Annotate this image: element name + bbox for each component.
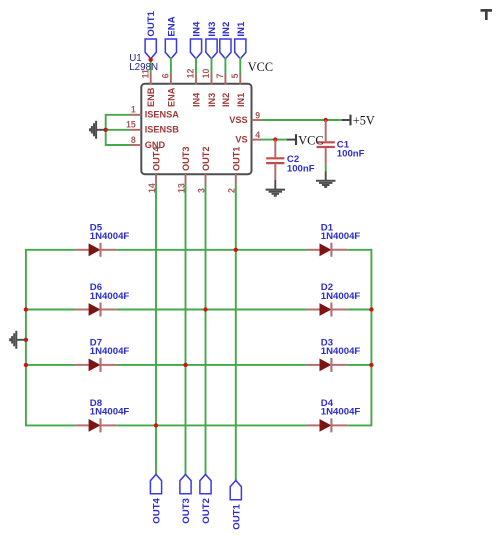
- U1 pin 2 (OUT1) bottom: [227, 146, 242, 193]
- svg-text:1N4004F: 1N4004F: [321, 346, 361, 357]
- svg-text:ENB: ENB: [146, 87, 156, 107]
- svg-text:IN3: IN3: [207, 22, 218, 37]
- wire IN3 connector to U1: [211, 58, 213, 75]
- wire VS to VCC: [262, 139, 287, 141]
- junction row2/OUT2: [203, 307, 207, 311]
- junction left bus row3: [24, 363, 28, 367]
- diode D6: [76, 303, 117, 317]
- diode D7: [76, 358, 117, 372]
- U1 pin 4 (VS) right: [235, 130, 262, 145]
- diode D5: [76, 243, 117, 257]
- wire U1 pin8 to bus: [106, 144, 130, 146]
- svg-text:IN2: IN2: [221, 22, 232, 37]
- D6 value 1N4004F: [90, 291, 130, 302]
- ground below C1: [316, 171, 336, 187]
- U1 pin 14 (OUT4) bottom: [147, 146, 162, 193]
- svg-text:12: 12: [186, 69, 196, 79]
- junction at OUT1 connector / pin ENB: [149, 58, 153, 62]
- wire diode row 2: [26, 309, 372, 311]
- svg-text:100nF: 100nF: [287, 163, 315, 174]
- U1 pin 6 (ENA) top: [161, 73, 177, 107]
- junction right bus row2: [369, 307, 373, 311]
- D4 name: [321, 398, 334, 409]
- svg-text:ISENSA: ISENSA: [145, 110, 180, 120]
- U1 pin 11 (ENB) top: [140, 69, 156, 107]
- wire IN1 connector to U1: [239, 58, 241, 75]
- svg-text:OUT2: OUT2: [201, 498, 212, 524]
- ground GND at U1 sense: [90, 121, 106, 139]
- svg-text:8: 8: [131, 135, 136, 145]
- svg-text:OUT1: OUT1: [231, 146, 241, 171]
- capacitor C1: [317, 120, 335, 165]
- diode D2: [307, 303, 348, 317]
- C1 value 100nF: [337, 148, 365, 159]
- junction C2 top: [273, 137, 277, 141]
- wire U1 OUT3 to connector: [185, 185, 187, 475]
- wire left bracket vertical: [105, 114, 107, 146]
- svg-text:1: 1: [131, 105, 136, 115]
- junction right bus row3: [369, 363, 373, 367]
- svg-text:VSS: VSS: [229, 115, 247, 125]
- U1 pin 10 (IN3) top: [201, 69, 217, 107]
- junction left bracket: [104, 128, 108, 132]
- connector pad OUT1 (bottom): [230, 480, 242, 529]
- supply +5V symbol: [342, 113, 375, 127]
- wire U1 OUT4 to connector: [155, 185, 157, 475]
- wire U1 pin15 to bus: [106, 129, 130, 131]
- connector pad IN4 (top): [190, 21, 202, 59]
- supply VCC symbol: [287, 133, 324, 147]
- diode D3: [307, 358, 348, 372]
- D1 name: [321, 223, 334, 234]
- D2 value 1N4004F: [321, 291, 361, 302]
- svg-text:1N4004F: 1N4004F: [90, 231, 130, 242]
- ground at diode bus: [10, 331, 26, 349]
- svg-text:7: 7: [215, 73, 225, 78]
- svg-text:6: 6: [161, 73, 171, 78]
- wire diode row 3: [26, 364, 372, 366]
- U1 pin 7 (IN2) top: [215, 73, 231, 107]
- U1 pin 1 (ISENSA) left: [130, 105, 179, 120]
- svg-text:1N4004F: 1N4004F: [90, 407, 130, 418]
- connector pad IN2 (top): [220, 22, 232, 59]
- svg-text:OUT4: OUT4: [152, 497, 163, 523]
- wire U1 OUT2 to connector: [205, 185, 207, 475]
- svg-text:1N4004F: 1N4004F: [90, 291, 130, 302]
- svg-text:VS: VS: [235, 135, 247, 145]
- connector pad IN3 (top): [206, 22, 218, 59]
- svg-text:1N4004F: 1N4004F: [321, 291, 361, 302]
- svg-text:5: 5: [230, 73, 240, 78]
- U1 pin 9 (VSS) right: [229, 110, 262, 125]
- wire OUT1 connector to U1: [150, 58, 152, 75]
- svg-text:1N4004F: 1N4004F: [90, 346, 130, 357]
- D6 name: [90, 282, 102, 293]
- junction row3/OUT3: [183, 363, 187, 367]
- wire U1 OUT1 to connector: [235, 185, 237, 481]
- svg-text:OUT1: OUT1: [146, 10, 157, 36]
- svg-text:IN1: IN1: [236, 21, 247, 37]
- U1 value L298N: [129, 62, 158, 73]
- U1 pin 3 (OUT2) bottom: [196, 146, 211, 193]
- D7 name: [90, 338, 102, 349]
- D8 name: [90, 398, 103, 409]
- junction C1 top: [324, 118, 328, 122]
- connector pad OUT3 (bottom): [180, 474, 192, 523]
- D3 name: [321, 338, 333, 349]
- U1 pin 5 (IN1) top: [230, 73, 246, 107]
- wire IN4 connector to U1: [195, 58, 197, 75]
- wire left bus: [25, 249, 27, 427]
- ground below C2: [266, 180, 286, 196]
- svg-text:10: 10: [201, 69, 211, 79]
- svg-text:IN4: IN4: [192, 92, 202, 107]
- C2 name: [287, 154, 299, 165]
- diode D1: [307, 243, 348, 257]
- junction row1/OUT1: [234, 248, 238, 252]
- junction row4/OUT4: [154, 423, 158, 427]
- D4 value 1N4004F: [321, 407, 361, 418]
- svg-text:ISENSB: ISENSB: [145, 125, 180, 135]
- svg-text:15: 15: [126, 120, 136, 130]
- junction left bus row2: [24, 307, 28, 311]
- svg-text:VCC: VCC: [298, 133, 323, 147]
- wire U1 pin1 to bus: [106, 114, 130, 116]
- sheet title T: [481, 9, 493, 20]
- D5 name: [90, 223, 103, 234]
- capacitor C2: [266, 140, 284, 180]
- connector pad IN1 (top): [235, 21, 247, 59]
- D3 value 1N4004F: [321, 346, 361, 357]
- svg-text:+5V: +5V: [353, 113, 375, 127]
- svg-text:IN3: IN3: [207, 93, 217, 107]
- svg-text:ENA: ENA: [166, 16, 177, 36]
- connector pad OUT1 (top): [145, 10, 157, 58]
- C2 value 100nF: [287, 163, 315, 174]
- diode D8: [76, 418, 117, 432]
- svg-text:OUT4: OUT4: [152, 146, 162, 171]
- svg-text:OUT1: OUT1: [231, 503, 242, 529]
- wire right bus: [370, 249, 372, 427]
- D7 value 1N4004F: [90, 346, 130, 357]
- svg-text:IN2: IN2: [221, 93, 231, 107]
- svg-text:IN4: IN4: [192, 21, 203, 37]
- wire IN2 connector to U1: [224, 58, 226, 75]
- wire diode row 4: [26, 424, 372, 426]
- svg-text:ENA: ENA: [166, 87, 176, 107]
- svg-text:1N4004F: 1N4004F: [321, 231, 361, 242]
- junction left bus gnd: [24, 338, 28, 342]
- connector pad OUT4 (bottom): [150, 474, 162, 523]
- svg-text:IN1: IN1: [236, 93, 246, 107]
- svg-text:100nF: 100nF: [337, 148, 365, 159]
- U1 pin 15 (ISENSB) left: [126, 120, 179, 135]
- wire ENA connector to U1: [170, 58, 172, 75]
- svg-text:OUT3: OUT3: [181, 498, 192, 524]
- U1 name: [129, 53, 142, 64]
- connector pad ENA (top): [165, 16, 177, 59]
- U1 pin 8 (GND) left: [130, 135, 165, 150]
- diode D4: [307, 418, 348, 432]
- U1 pin 13 (OUT3) bottom: [176, 146, 191, 193]
- svg-text:11: 11: [140, 69, 150, 78]
- D2 name: [321, 282, 333, 293]
- net label VCC (top): [248, 60, 273, 74]
- U1 pin 12 (IN4) top: [186, 69, 202, 107]
- svg-text:OUT3: OUT3: [181, 146, 191, 171]
- wire diode row 1: [26, 249, 372, 251]
- wire VSS to +5V: [262, 119, 342, 121]
- D5 value 1N4004F: [90, 231, 130, 242]
- op IC U1 L298N body: [141, 84, 251, 174]
- svg-text:VCC: VCC: [248, 60, 273, 74]
- connector pad OUT2 (bottom): [200, 474, 212, 523]
- svg-text:4: 4: [255, 130, 260, 140]
- svg-text:1N4004F: 1N4004F: [321, 407, 361, 418]
- C1 name: [337, 139, 350, 150]
- D8 value 1N4004F: [90, 407, 130, 418]
- wire C1 to ground: [325, 165, 327, 171]
- D1 value 1N4004F: [321, 231, 361, 242]
- svg-text:9: 9: [255, 110, 260, 120]
- svg-text:OUT2: OUT2: [201, 146, 211, 171]
